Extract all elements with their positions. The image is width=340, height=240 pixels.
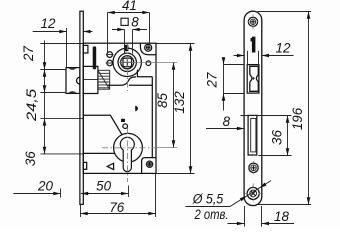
latch bolt head bbox=[66, 68, 80, 94]
svg-text:8: 8 bbox=[223, 114, 231, 129]
cover plate upper edge bbox=[83, 115, 122, 134]
faceplate front bbox=[244, 11, 262, 205]
svg-text:20: 20 bbox=[37, 178, 53, 193]
vertical centerline follower bbox=[127, 44, 129, 91]
svg-text:36: 36 bbox=[270, 130, 285, 145]
follower top tab bbox=[125, 45, 129, 51]
svg-text:41: 41 bbox=[122, 0, 137, 13]
circle stop bbox=[123, 124, 128, 129]
D stop bbox=[135, 106, 138, 112]
follower inner ring bbox=[121, 56, 134, 69]
clip bottom-left bbox=[83, 162, 86, 169]
follower boss bbox=[113, 48, 141, 76]
bolt cutout bbox=[248, 115, 257, 155]
svg-text:18: 18 bbox=[274, 209, 289, 224]
latch spring bbox=[98, 70, 110, 89]
ext lines left chain bbox=[40, 44, 83, 154]
dim 196 bbox=[256, 12, 311, 205]
euro cylinder profile bbox=[120, 137, 134, 171]
latch guide notch bbox=[77, 77, 80, 84]
dim 41 bbox=[108, 13, 150, 53]
dim 8 right bbox=[206, 128, 244, 130]
cam interior lines bbox=[129, 70, 152, 158]
svg-text:12: 12 bbox=[276, 41, 291, 56]
svg-text:196: 196 bbox=[290, 107, 305, 130]
latch pin slot bbox=[252, 37, 256, 53]
slide slot bbox=[93, 46, 97, 69]
svg-text:27: 27 bbox=[204, 72, 219, 88]
svg-text:132: 132 bbox=[172, 91, 187, 114]
svg-text:24,5: 24,5 bbox=[24, 88, 39, 122]
cover plate lower edge bbox=[83, 152, 114, 154]
dim 85 bbox=[136, 63, 178, 148]
latch front bbox=[250, 66, 258, 91]
latch bevel bottom crescent bbox=[68, 91, 76, 93]
screw housing bottom-right bbox=[142, 158, 156, 174]
square stop bbox=[121, 119, 125, 122]
latch bevel top crescent bbox=[68, 68, 76, 70]
top screw bbox=[248, 17, 257, 26]
vertical centerline cylinder bbox=[127, 128, 129, 182]
screw bottom-right bbox=[147, 161, 153, 167]
svg-text:8: 8 bbox=[131, 15, 139, 30]
cylinder cam ring bbox=[114, 133, 143, 162]
svg-text:12: 12 bbox=[41, 16, 56, 31]
svg-text:50: 50 bbox=[96, 178, 111, 193]
svg-text:Ø 5,5: Ø 5,5 bbox=[192, 190, 224, 206]
horizontal centerline cylinder bbox=[102, 147, 156, 149]
leader Ø5,5 bbox=[185, 181, 271, 207]
bottom screw bbox=[247, 187, 259, 199]
screw post upper bbox=[107, 52, 113, 58]
svg-text:27: 27 bbox=[21, 46, 36, 62]
follower square hole 8mm bbox=[123, 58, 132, 67]
dim 12 right bbox=[248, 51, 259, 65]
dim 20 bbox=[60, 189, 62, 198]
svg-text:85: 85 bbox=[155, 93, 170, 108]
latch cutout bbox=[247, 65, 259, 94]
svg-text:36: 36 bbox=[23, 151, 38, 166]
dim 27 right bbox=[224, 65, 245, 94]
top-right corner bracket bbox=[140, 43, 156, 55]
left chain dim line bbox=[44, 41, 46, 154]
dim 18 bbox=[245, 206, 262, 227]
dim 50 bbox=[128, 186, 130, 198]
pin circle right bbox=[146, 61, 151, 66]
latch tail block bbox=[83, 66, 98, 93]
svg-text:76: 76 bbox=[109, 200, 124, 215]
lock case outline bbox=[83, 43, 156, 173]
latch tail midline bbox=[83, 79, 98, 81]
clip top-left bbox=[83, 45, 88, 53]
dim 132 bbox=[156, 44, 195, 174]
deadstop triangle bbox=[107, 163, 113, 169]
dim 12 latch throw bbox=[66, 28, 68, 68]
mid screw bbox=[249, 163, 258, 172]
dim 36 right bbox=[241, 116, 292, 156]
screw post lower bbox=[107, 60, 113, 66]
horizontal centerline follower bbox=[119, 62, 136, 64]
dim square 8 bbox=[125, 30, 133, 54]
screw top-right bbox=[145, 44, 152, 51]
faceplate side view bbox=[80, 11, 83, 204]
follower outer ring bbox=[118, 53, 136, 71]
dim 24,5 arrows bbox=[43, 70, 47, 77]
dim 36 arrows bbox=[43, 118, 47, 125]
svg-text:2 отв.: 2 отв. bbox=[194, 206, 229, 222]
dim 76 bbox=[81, 174, 156, 218]
dim 27 arrows bbox=[43, 62, 47, 69]
